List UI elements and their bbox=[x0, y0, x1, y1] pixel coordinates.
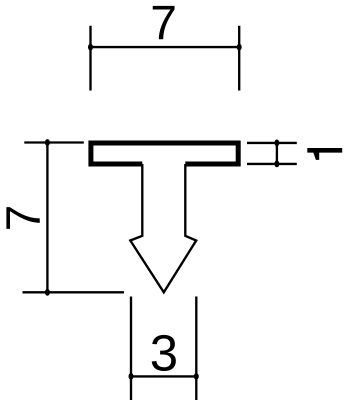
bottom dimension dot right bbox=[194, 373, 199, 380]
bottom dimension extension line right bbox=[195, 297, 197, 400]
svg-text:7: 7 bbox=[0, 205, 51, 232]
arrow stem and head outline bbox=[130, 164, 196, 292]
right dimension dot top bbox=[274, 140, 279, 147]
left dimension line bbox=[46, 143, 48, 293]
bottom dimension extension line left bbox=[130, 297, 132, 400]
top dimension extension line left bbox=[89, 26, 91, 91]
right dimension label 1 (rotated) bbox=[307, 148, 342, 160]
svg-text:3: 3 bbox=[150, 325, 178, 382]
left dimension dot top bbox=[45, 139, 50, 146]
bottom dimension line bbox=[131, 375, 196, 377]
svg-text:7: 7 bbox=[150, 0, 177, 50]
top dimension dot right bbox=[237, 44, 242, 51]
top dimension extension line right bbox=[238, 26, 240, 91]
bottom dimension dot left bbox=[129, 373, 134, 380]
left dimension extension line bottom bbox=[23, 291, 125, 293]
left dimension extension line top bbox=[24, 141, 84, 143]
right dimension dot bottom bbox=[274, 161, 279, 168]
right dimension extension line bottom bbox=[247, 163, 297, 165]
top dimension dot left bbox=[88, 44, 93, 51]
top dimension line bbox=[91, 46, 240, 48]
right dimension extension line top bbox=[247, 142, 297, 144]
right dimension line bbox=[276, 141, 278, 167]
left dimension dot bottom bbox=[45, 289, 50, 296]
T profile flange (thick bar outline) bbox=[91, 143, 238, 164]
